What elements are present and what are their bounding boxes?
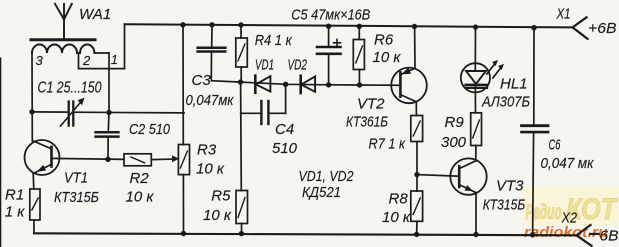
svg-text:VD1: VD1 bbox=[255, 57, 274, 74]
svg-text:R4 1 к: R4 1 к bbox=[255, 32, 293, 49]
svg-text:10 к: 10 к bbox=[373, 49, 402, 66]
svg-text:1 к: 1 к bbox=[5, 204, 26, 221]
svg-text:КТ315Б: КТ315Б bbox=[483, 197, 526, 214]
svg-text:C4: C4 bbox=[275, 121, 294, 138]
svg-text:R7 1 к: R7 1 к bbox=[369, 136, 406, 153]
svg-text:X2: X2 bbox=[561, 210, 578, 227]
svg-text:C2 510: C2 510 bbox=[129, 121, 171, 138]
svg-text:VT2: VT2 bbox=[357, 96, 385, 113]
svg-text:C5 47мк×16В: C5 47мк×16В bbox=[291, 7, 370, 24]
svg-text:КТ315Б: КТ315Б bbox=[54, 189, 99, 206]
svg-text:VT1: VT1 bbox=[64, 170, 88, 187]
svg-text:300: 300 bbox=[441, 134, 467, 151]
svg-text:6В: 6В bbox=[600, 228, 619, 245]
svg-text:C1 25...150: C1 25...150 bbox=[38, 80, 102, 97]
svg-text:10 к: 10 к bbox=[196, 161, 225, 178]
svg-text:VD1, VD2: VD1, VD2 bbox=[299, 168, 355, 185]
svg-text:2: 2 bbox=[82, 53, 91, 68]
svg-text:10 к: 10 к bbox=[126, 189, 155, 206]
svg-text:1: 1 bbox=[111, 52, 118, 67]
svg-text:Радио: Радио bbox=[526, 201, 562, 224]
svg-text:VT3: VT3 bbox=[496, 178, 524, 195]
svg-text:C6: C6 bbox=[549, 137, 561, 154]
svg-text:R1: R1 bbox=[5, 187, 24, 204]
svg-text:HL1: HL1 bbox=[500, 76, 528, 93]
svg-text:0,047 мк: 0,047 мк bbox=[541, 155, 595, 172]
svg-text:R8: R8 bbox=[389, 191, 409, 208]
svg-text:R3: R3 bbox=[197, 142, 217, 159]
svg-text:10 к: 10 к bbox=[382, 209, 411, 226]
svg-text:КД521: КД521 bbox=[302, 184, 341, 201]
svg-text:0,047мк: 0,047мк bbox=[186, 93, 235, 109]
svg-text:radiokot.ru: radiokot.ru bbox=[524, 224, 608, 241]
svg-text:R2: R2 bbox=[130, 170, 150, 187]
svg-text:510: 510 bbox=[272, 140, 298, 157]
svg-text:КТ361Б: КТ361Б bbox=[346, 114, 388, 131]
svg-text:10 к: 10 к bbox=[203, 207, 232, 224]
svg-text:VD2: VD2 bbox=[288, 57, 308, 74]
svg-text:C3: C3 bbox=[192, 72, 212, 89]
svg-text:R9: R9 bbox=[445, 114, 465, 131]
svg-text:R5: R5 bbox=[211, 188, 231, 205]
svg-text:X1: X1 bbox=[556, 6, 571, 23]
svg-text:3: 3 bbox=[36, 53, 44, 68]
svg-text:АЛ307Б: АЛ307Б bbox=[481, 94, 530, 111]
svg-text:R6: R6 bbox=[374, 32, 394, 49]
svg-text:+6В: +6В bbox=[588, 20, 617, 37]
svg-text:WA1: WA1 bbox=[79, 6, 111, 23]
